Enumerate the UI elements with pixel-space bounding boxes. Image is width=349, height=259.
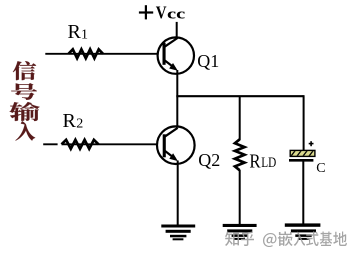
label + polarity of C (309, 141, 314, 146)
resistor R2 (62, 140, 99, 149)
wire RLD to GND2 (239, 170, 241, 225)
ground GND2 (223, 224, 257, 240)
svg-text:LD: LD (261, 155, 276, 171)
svg-text:R: R (249, 150, 261, 172)
ground GND1 (161, 225, 195, 241)
svg-text:2: 2 (76, 117, 83, 132)
svg-text:R: R (68, 21, 82, 43)
svg-text:Q2: Q2 (198, 150, 220, 170)
wire input stub to R2 (43, 143, 57, 145)
label RLD (249, 150, 276, 172)
wire R2 to Q2 base (62, 143, 164, 145)
transistor Q2 (157, 126, 195, 164)
svg-text:C: C (316, 161, 325, 176)
resistor R1 (69, 49, 104, 58)
power +Vcc (139, 2, 186, 22)
wire input to R1 to Q1 base (45, 53, 163, 55)
svg-text:Q1: Q1 (197, 51, 219, 71)
svg-text:R: R (63, 110, 77, 132)
wire Q1 emitter to node A to Q2 collector (176, 70, 178, 128)
capacitor C bottom plate (289, 159, 313, 162)
svg-text:V: V (156, 2, 167, 22)
node A rail wire (176, 95, 303, 97)
wire node A to capacitor C (303, 95, 305, 150)
watermark 知乎 @嵌入式基地 (225, 232, 347, 248)
ground GND3 (285, 223, 321, 240)
capacitor C top plate (288, 147, 322, 160)
wire capacitor C to GND3 (302, 162, 304, 225)
resistor RLD (235, 139, 245, 170)
label signal input 信号输入 (10, 61, 40, 140)
wire Q2 emitter to GND1 (177, 161, 179, 226)
label R1 (68, 21, 89, 43)
transistor Q1 (158, 37, 194, 73)
label R2 (63, 110, 84, 132)
svg-text:cc: cc (167, 6, 186, 22)
wire node A to RLD (239, 96, 241, 140)
svg-text:1: 1 (81, 28, 88, 43)
wire Vcc to Q1 collector (176, 22, 178, 40)
